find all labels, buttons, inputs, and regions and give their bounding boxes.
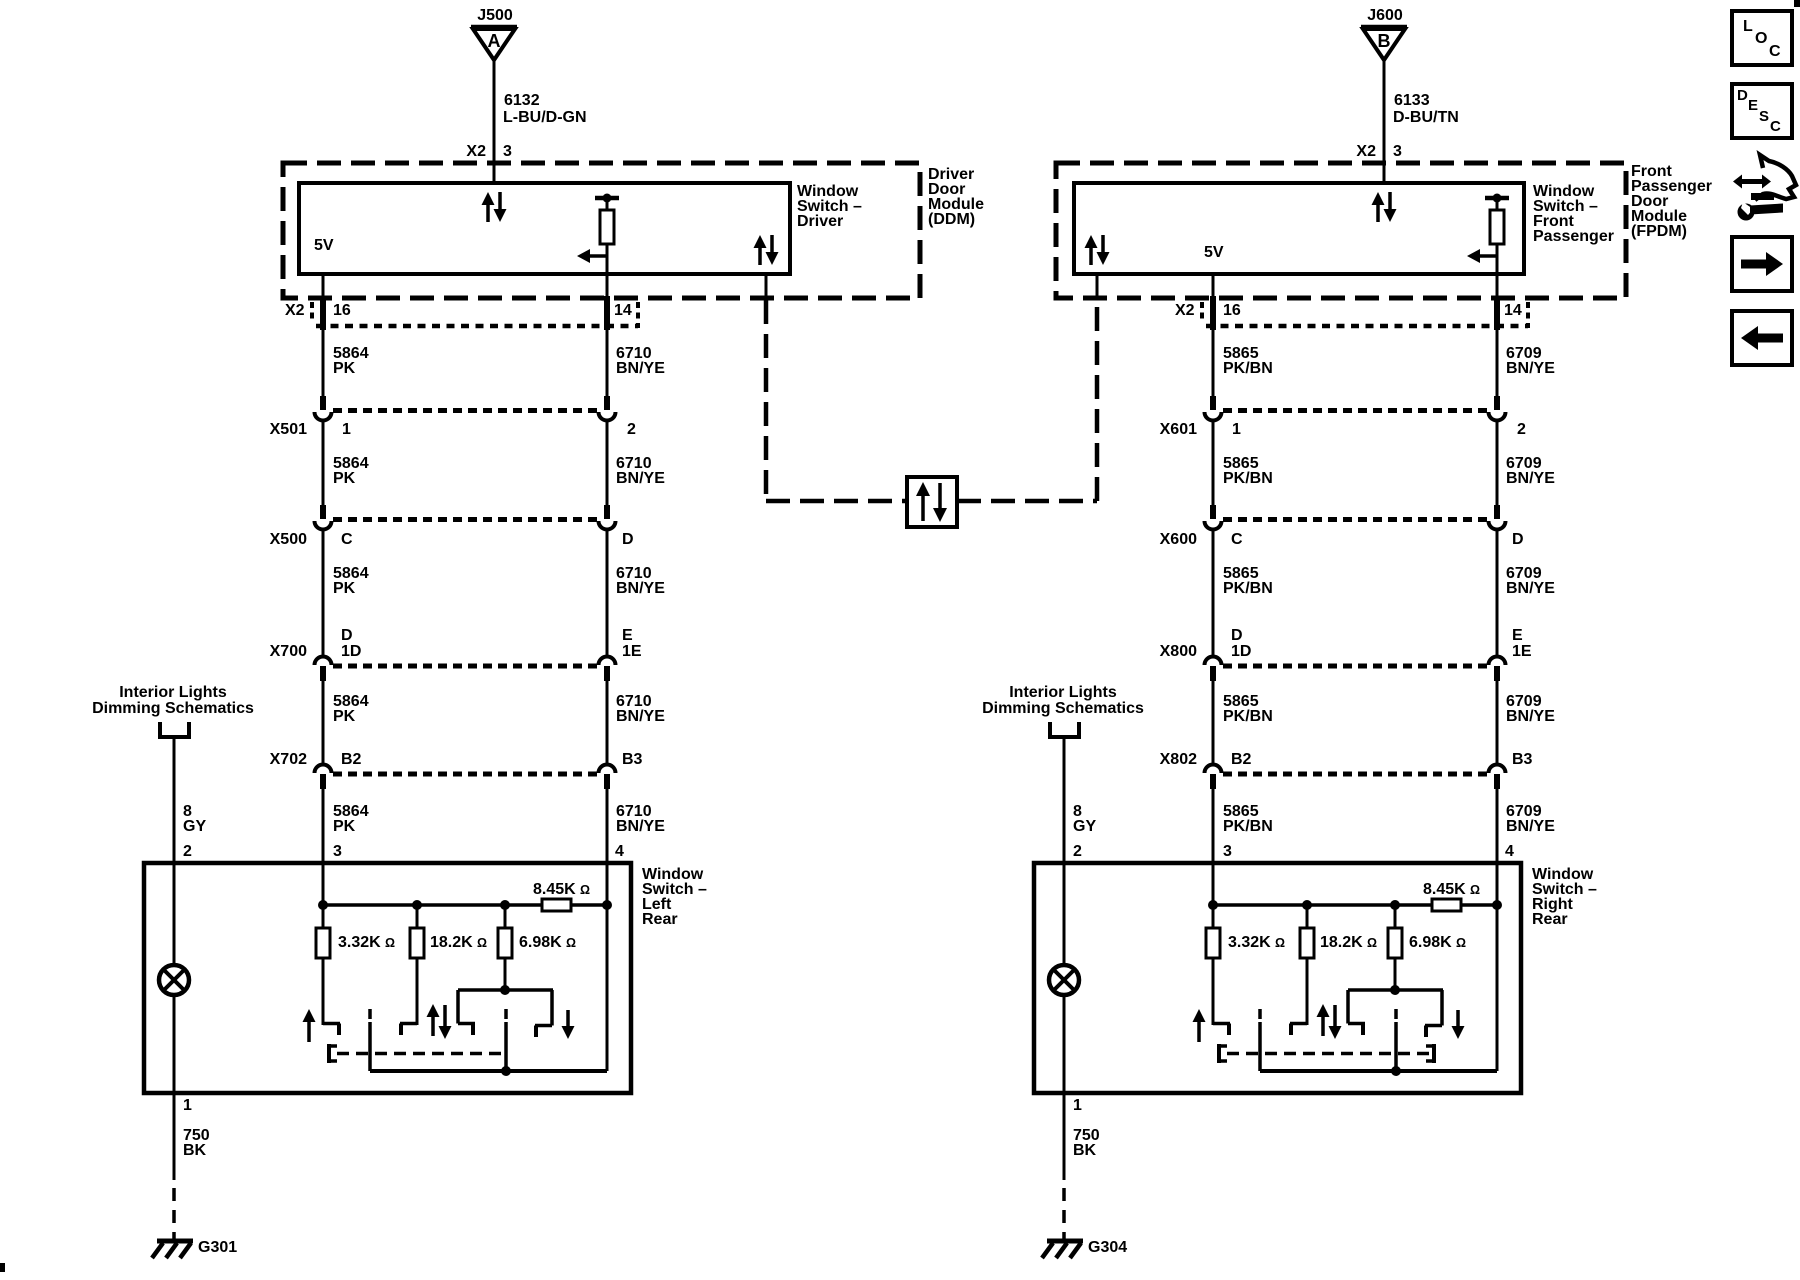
pin 3 label rear switch xyxy=(1223,843,1232,860)
svg-text:C: C xyxy=(1231,531,1243,548)
svg-text:1: 1 xyxy=(183,1097,192,1114)
svg-text:Ω: Ω xyxy=(566,936,576,950)
inline connector X802 left half xyxy=(1205,765,1222,790)
inline connector X500 right half xyxy=(599,505,616,530)
wire pin 4 into switch xyxy=(1496,863,1499,905)
svg-text:Interior Lights: Interior Lights xyxy=(1009,684,1117,701)
switch pole 1 xyxy=(368,1009,372,1071)
label 6710 BN/YE 4 xyxy=(616,693,665,725)
node J500 harness junction triangle xyxy=(471,7,517,60)
svg-text:1: 1 xyxy=(342,421,351,438)
module dashed box DDM xyxy=(283,163,920,298)
inline connector X500 left half xyxy=(315,505,332,530)
svg-text:O: O xyxy=(1755,30,1767,47)
svg-text:PK/BN: PK/BN xyxy=(1223,818,1273,835)
svg-text:X2: X2 xyxy=(1175,302,1195,319)
label X700 xyxy=(270,643,307,660)
off-page bracket to dimming schematics xyxy=(158,722,191,737)
svg-text:3: 3 xyxy=(1393,143,1402,160)
mechanical link dashed horizontal left xyxy=(766,499,905,504)
pin C label xyxy=(1231,531,1243,548)
resistor 6.98K xyxy=(1388,905,1402,990)
sidebar interactive icon wrench xyxy=(1738,202,1784,221)
inline connector X800 right half xyxy=(1489,657,1506,681)
pin D 1D label xyxy=(341,627,361,660)
label X600 xyxy=(1160,531,1197,548)
up/down arrows xyxy=(1317,1004,1342,1039)
wire 5864 segment 5 xyxy=(322,789,325,863)
svg-text:BN/YE: BN/YE xyxy=(1506,470,1555,487)
resistor 18.2K xyxy=(410,905,424,1025)
wire 6710 pin14 segment 1 xyxy=(606,274,609,398)
up/down switch contact xyxy=(400,1024,417,1036)
down switch bridge xyxy=(458,985,553,1026)
svg-text:3.32K: 3.32K xyxy=(1228,934,1271,951)
svg-text:3.32K: 3.32K xyxy=(338,934,381,951)
pin 2 label rear switch xyxy=(183,843,192,860)
down switch contact left xyxy=(1348,1024,1365,1036)
up/down switch contact xyxy=(1290,1024,1307,1036)
svg-text:6132: 6132 xyxy=(504,92,540,109)
inline connector X501 left half xyxy=(315,396,332,421)
label Window Switch Front Passenger xyxy=(1533,183,1614,245)
node J600 harness junction triangle xyxy=(1361,7,1407,60)
sidebar interactive icon pointer outline xyxy=(1751,155,1796,200)
label X800 xyxy=(1160,643,1197,660)
svg-text:2: 2 xyxy=(183,843,192,860)
label 5864 PK 2 xyxy=(333,455,369,487)
pin 1 label xyxy=(1232,421,1241,438)
label 6710 BN/YE 3 xyxy=(616,565,665,597)
window switch box Window Switch Right Rear xyxy=(1034,863,1521,1093)
svg-text:GY: GY xyxy=(183,818,206,835)
window up/down arrows at module input xyxy=(482,192,507,222)
label 5865 PK/BN 3 xyxy=(1223,565,1273,597)
wire 6710 segment 5 xyxy=(606,789,609,863)
illumination lamp xyxy=(1049,863,1079,1093)
module internal left arrow xyxy=(1467,249,1497,263)
sidebar DESC button xyxy=(1732,84,1792,138)
wire 6133 from J600 to module xyxy=(1383,60,1386,185)
label G304 xyxy=(1088,1239,1127,1256)
svg-text:1D: 1D xyxy=(341,643,361,660)
wire 6709 pin14 segment 1 xyxy=(1496,274,1499,398)
connector X600 dotted link xyxy=(1223,517,1487,522)
label 6709 BN/YE 5 xyxy=(1506,803,1555,835)
svg-text:BN/YE: BN/YE xyxy=(1506,818,1555,835)
pin 1 label xyxy=(1073,1097,1082,1114)
wire 5864 pin16 segment 1 xyxy=(322,274,325,398)
label 18.2K ohm xyxy=(430,934,487,951)
pin 16 label xyxy=(333,302,351,319)
pin 1 label xyxy=(183,1097,192,1114)
svg-text:BN/YE: BN/YE xyxy=(616,580,665,597)
connector X2 dotted boundary xyxy=(312,302,638,328)
wire 8 GY dimming feed xyxy=(173,737,176,863)
resistor 18.2K xyxy=(1300,905,1314,1025)
inline connector X700 right half xyxy=(599,657,616,681)
svg-text:16: 16 xyxy=(1223,302,1241,319)
wire 5865 segment 2 xyxy=(1212,419,1215,506)
svg-text:D: D xyxy=(622,531,634,548)
svg-text:BN/YE: BN/YE xyxy=(1506,360,1555,377)
wire 6709 segment 5 xyxy=(1496,789,1499,863)
svg-text:PK: PK xyxy=(333,360,356,377)
pin D label xyxy=(1512,531,1524,548)
svg-text:L-BU/D-GN: L-BU/D-GN xyxy=(503,109,587,126)
svg-text:D: D xyxy=(1737,87,1748,104)
svg-text:Dimming Schematics: Dimming Schematics xyxy=(982,700,1144,717)
label circuit 8 GY xyxy=(183,803,206,835)
module dashed box FPDM xyxy=(1056,163,1626,298)
svg-text:14: 14 xyxy=(1504,302,1522,319)
pin 2 label rear switch xyxy=(1073,843,1082,860)
svg-text:PK: PK xyxy=(333,708,356,725)
svg-text:X800: X800 xyxy=(1160,643,1197,660)
label 6710 BN/YE 2 xyxy=(616,455,665,487)
svg-text:D-BU/TN: D-BU/TN xyxy=(1393,109,1459,126)
svg-text:16: 16 xyxy=(333,302,351,319)
svg-text:4: 4 xyxy=(1505,843,1514,860)
label 5V xyxy=(314,237,334,254)
svg-text:14: 14 xyxy=(614,302,632,319)
off-page bracket to dimming schematics xyxy=(1048,722,1081,737)
svg-text:Rear: Rear xyxy=(1532,911,1568,928)
label circuit 8 GY xyxy=(1073,803,1096,835)
svg-text:D: D xyxy=(1231,627,1243,644)
mechanical link dashed line xyxy=(337,1052,503,1056)
svg-text:X601: X601 xyxy=(1160,421,1197,438)
inline connector X600 left half xyxy=(1205,505,1222,530)
label 3.32K ohm xyxy=(1228,934,1285,951)
svg-text:C: C xyxy=(1770,118,1781,135)
svg-text:X2: X2 xyxy=(1356,143,1376,160)
mechanical link dashed horizontal right xyxy=(957,499,1097,504)
svg-text:X2: X2 xyxy=(466,143,486,160)
label circuit 750 BK xyxy=(1073,1127,1100,1159)
window motion up/down symbol box xyxy=(907,477,957,527)
label X601 xyxy=(1160,421,1197,438)
label 6.98K ohm xyxy=(519,934,576,951)
label connector X2 pin 3 xyxy=(466,143,512,160)
svg-text:B3: B3 xyxy=(622,751,643,768)
pin 4 label rear switch xyxy=(615,843,624,860)
svg-text:(FPDM): (FPDM) xyxy=(1631,223,1687,240)
label 5864 PK 5 xyxy=(333,803,369,835)
label 5865 PK/BN 5 xyxy=(1223,803,1273,835)
wire 5865 segment 3 xyxy=(1212,528,1215,658)
label 8.45K ohm xyxy=(533,881,590,898)
label 6710 BN/YE 1 xyxy=(616,345,665,377)
svg-text:E: E xyxy=(1512,627,1523,644)
connector X802 dotted link xyxy=(1223,772,1487,777)
svg-text:E: E xyxy=(1748,97,1758,114)
svg-text:X700: X700 xyxy=(270,643,307,660)
switch pole 2 xyxy=(1394,1009,1398,1071)
resistor 3.32K xyxy=(1206,928,1220,1025)
up/down arrows xyxy=(427,1004,452,1039)
svg-text:PK: PK xyxy=(333,470,356,487)
svg-text:PK: PK xyxy=(333,818,356,835)
inline connector X702 left half xyxy=(315,765,332,790)
inline connector X600 right half xyxy=(1489,505,1506,530)
svg-text:5V: 5V xyxy=(314,237,334,254)
down switch contact right xyxy=(1425,1026,1442,1038)
svg-text:2: 2 xyxy=(1517,421,1526,438)
svg-text:D: D xyxy=(341,627,353,644)
pin C label xyxy=(341,531,353,548)
svg-text:L: L xyxy=(1743,18,1753,35)
label circuit 6132 L-BU/D-GN xyxy=(503,92,587,126)
up arrow xyxy=(303,1009,316,1042)
label 5864 PK 4 xyxy=(333,693,369,725)
svg-text:J600: J600 xyxy=(1367,7,1403,24)
label Interior Lights Dimming Schematics xyxy=(92,684,254,717)
connector X700 dotted link xyxy=(333,664,597,669)
wire pin 4 into switch xyxy=(606,863,609,905)
up arrow xyxy=(1193,1009,1206,1042)
wire 6709 segment 2 xyxy=(1496,419,1499,506)
pin D label xyxy=(622,531,634,548)
wire 6710 segment 2 xyxy=(606,419,609,506)
svg-text:B2: B2 xyxy=(1231,751,1252,768)
inline connector X700 left half xyxy=(315,657,332,681)
pin 3 label rear switch xyxy=(333,843,342,860)
pin 2 label xyxy=(1517,421,1526,438)
connector X500 dotted link xyxy=(333,517,597,522)
wire 5864 segment 2 xyxy=(322,419,325,506)
label 6710 BN/YE 5 xyxy=(616,803,665,835)
mechanical link right bracket xyxy=(1426,1044,1434,1063)
switch common bus xyxy=(370,905,607,1076)
label 5865 PK/BN 4 xyxy=(1223,693,1273,725)
label circuit 750 BK xyxy=(183,1127,210,1159)
window switch box Window Switch Driver xyxy=(299,183,790,274)
switch resistor bus xyxy=(1208,900,1502,928)
svg-text:Ω: Ω xyxy=(1275,936,1285,950)
svg-text:X702: X702 xyxy=(270,751,307,768)
label 5V xyxy=(1204,244,1224,261)
inline connector X501 right half xyxy=(599,396,616,421)
resistor 8.45K xyxy=(1432,899,1461,911)
module internal resistor with terminal bar xyxy=(595,194,619,275)
svg-text:GY: GY xyxy=(1073,818,1096,835)
svg-text:BK: BK xyxy=(1073,1142,1097,1159)
mechanical link DDM to FPDM wire left xyxy=(765,274,768,501)
svg-text:Ω: Ω xyxy=(477,936,487,950)
inline connector X802 right half xyxy=(1489,765,1506,790)
connector X601 dotted link xyxy=(1223,408,1487,413)
svg-text:Driver: Driver xyxy=(797,213,843,230)
pin E 1E label xyxy=(1512,627,1532,660)
connector X800 dotted link xyxy=(1223,664,1487,669)
pin D 1D label xyxy=(1231,627,1251,660)
svg-text:BN/YE: BN/YE xyxy=(1506,708,1555,725)
mechanical link FPDM wire right xyxy=(1095,274,1100,501)
label 8.45K ohm xyxy=(1423,881,1480,898)
svg-text:Interior Lights: Interior Lights xyxy=(119,684,227,701)
pin B2 label xyxy=(1231,751,1252,768)
wire 5865 pin16 segment 1 xyxy=(1212,274,1215,398)
svg-text:B3: B3 xyxy=(1512,751,1533,768)
label G301 xyxy=(198,1239,237,1256)
svg-text:Dimming Schematics: Dimming Schematics xyxy=(92,700,254,717)
illumination lamp xyxy=(159,863,189,1093)
pin 4 label rear switch xyxy=(1505,843,1514,860)
pin E 1E label xyxy=(622,627,642,660)
inline connector X800 left half xyxy=(1205,657,1222,681)
wire 5865 segment 4 xyxy=(1212,681,1215,766)
svg-text:S: S xyxy=(1759,108,1769,125)
svg-text:6.98K: 6.98K xyxy=(1409,934,1452,951)
module internal left arrow xyxy=(577,249,607,263)
down arrow xyxy=(1452,1010,1465,1039)
wire 750 BK ground wire xyxy=(1063,1093,1066,1240)
module up/down arrows at mech link pin xyxy=(754,235,779,265)
svg-text:C: C xyxy=(341,531,353,548)
svg-text:18.2K: 18.2K xyxy=(1320,934,1363,951)
wire 5864 segment 3 xyxy=(322,528,325,658)
down switch contact right xyxy=(535,1026,552,1038)
label 5864 PK 3 xyxy=(333,565,369,597)
svg-text:Ω: Ω xyxy=(1456,936,1466,950)
wire 750 BK ground wire xyxy=(173,1093,176,1240)
label 3.32K ohm xyxy=(338,934,395,951)
svg-text:Rear: Rear xyxy=(642,911,678,928)
svg-text:J500: J500 xyxy=(477,7,513,24)
svg-text:8.45K: 8.45K xyxy=(533,881,576,898)
module up/down arrows at mech link pin xyxy=(1085,235,1110,265)
svg-text:2: 2 xyxy=(627,421,636,438)
svg-text:1E: 1E xyxy=(622,643,642,660)
label circuit 6133 D-BU/TN xyxy=(1393,92,1459,126)
mechanical link bracket xyxy=(329,1044,337,1063)
sidebar back arrow button xyxy=(1732,311,1792,365)
window switch box Window Switch Front Passenger xyxy=(1074,183,1524,274)
label Window Switch Right Rear xyxy=(1532,866,1597,928)
svg-text:5V: 5V xyxy=(1204,244,1224,261)
svg-text:1D: 1D xyxy=(1231,643,1251,660)
label X500 xyxy=(270,531,307,548)
svg-text:BN/YE: BN/YE xyxy=(616,818,665,835)
label connector X2 pin 3 xyxy=(1356,143,1402,160)
svg-text:G304: G304 xyxy=(1088,1239,1127,1256)
svg-text:Ω: Ω xyxy=(385,936,395,950)
svg-text:1E: 1E xyxy=(1512,643,1532,660)
svg-text:B2: B2 xyxy=(341,751,362,768)
svg-text:8.45K: 8.45K xyxy=(1423,881,1466,898)
ground G301 xyxy=(152,1241,193,1258)
svg-text:4: 4 xyxy=(615,843,624,860)
page corner tick bottom left xyxy=(0,1263,5,1272)
pin 14 label xyxy=(1504,302,1522,319)
svg-text:Ω: Ω xyxy=(1367,936,1377,950)
connector X2 pin row label xyxy=(285,302,305,319)
label 5864 PK 1 xyxy=(333,345,369,377)
svg-text:C: C xyxy=(1769,43,1781,60)
up switch contact xyxy=(1213,1024,1230,1036)
svg-text:BN/YE: BN/YE xyxy=(616,360,665,377)
svg-text:BN/YE: BN/YE xyxy=(1506,580,1555,597)
svg-text:PK/BN: PK/BN xyxy=(1223,470,1273,487)
svg-text:6133: 6133 xyxy=(1394,92,1430,109)
connector X501 dotted link xyxy=(333,408,597,413)
svg-text:X2: X2 xyxy=(285,302,305,319)
label 6.98K ohm xyxy=(1409,934,1466,951)
switch pole 2 xyxy=(504,1009,508,1071)
wire 8 GY dimming feed xyxy=(1063,737,1066,863)
pin B2 label xyxy=(341,751,362,768)
wire 6709 segment 3 xyxy=(1496,528,1499,658)
inline connector X601 left half xyxy=(1205,396,1222,421)
svg-text:3: 3 xyxy=(333,843,342,860)
svg-text:Passenger: Passenger xyxy=(1533,228,1614,245)
pin 14 label xyxy=(614,302,632,319)
label X501 xyxy=(270,421,307,438)
svg-text:X802: X802 xyxy=(1160,751,1197,768)
svg-text:B: B xyxy=(1378,31,1391,51)
svg-text:3: 3 xyxy=(1223,843,1232,860)
label 6709 BN/YE 2 xyxy=(1506,455,1555,487)
connector X2 dotted boundary xyxy=(1202,302,1528,328)
switch pole 1 xyxy=(1258,1009,1262,1071)
label 5865 PK/BN 2 xyxy=(1223,455,1273,487)
label X802 xyxy=(1160,751,1197,768)
ground G304 xyxy=(1042,1241,1083,1258)
label 6709 BN/YE 3 xyxy=(1506,565,1555,597)
switch resistor bus xyxy=(318,900,612,928)
svg-text:Ω: Ω xyxy=(580,883,590,897)
down switch bridge xyxy=(1348,985,1443,1026)
module internal resistor with terminal bar xyxy=(1485,194,1509,275)
label Window Switch Left Rear xyxy=(642,866,707,928)
svg-text:1: 1 xyxy=(1232,421,1241,438)
mechanical link dashed line xyxy=(1227,1052,1429,1056)
svg-text:Ω: Ω xyxy=(1470,883,1480,897)
pin 1 label xyxy=(342,421,351,438)
svg-text:BK: BK xyxy=(183,1142,207,1159)
connector X702 dotted link xyxy=(333,772,597,777)
label 18.2K ohm xyxy=(1320,934,1377,951)
svg-text:G301: G301 xyxy=(198,1239,237,1256)
svg-text:X500: X500 xyxy=(270,531,307,548)
switch common bus xyxy=(1260,905,1497,1076)
label Front Passenger Door Module (FPDM) xyxy=(1631,163,1712,240)
label Interior Lights Dimming Schematics xyxy=(982,684,1144,717)
svg-text:18.2K: 18.2K xyxy=(430,934,473,951)
svg-text:A: A xyxy=(488,31,501,51)
window switch box Window Switch Left Rear xyxy=(144,863,631,1093)
sidebar next arrow button xyxy=(1732,237,1792,291)
svg-text:3: 3 xyxy=(503,143,512,160)
svg-text:2: 2 xyxy=(1073,843,1082,860)
inline connector X702 right half xyxy=(599,765,616,790)
wire 5865 segment 5 xyxy=(1212,789,1215,863)
down switch contact left xyxy=(458,1024,475,1036)
label 5865 PK/BN 1 xyxy=(1223,345,1273,377)
svg-text:X600: X600 xyxy=(1160,531,1197,548)
svg-text:PK/BN: PK/BN xyxy=(1223,360,1273,377)
mechanical link bracket xyxy=(1219,1044,1227,1063)
svg-text:1: 1 xyxy=(1073,1097,1082,1114)
page corner tick top right xyxy=(1794,0,1800,7)
svg-text:PK/BN: PK/BN xyxy=(1223,708,1273,725)
svg-text:PK/BN: PK/BN xyxy=(1223,580,1273,597)
sidebar LOC button xyxy=(1732,11,1792,65)
sidebar interactive icon double arrow xyxy=(1733,175,1771,189)
wire 6710 segment 3 xyxy=(606,528,609,658)
wire 6132 from J500 to module xyxy=(493,60,496,185)
